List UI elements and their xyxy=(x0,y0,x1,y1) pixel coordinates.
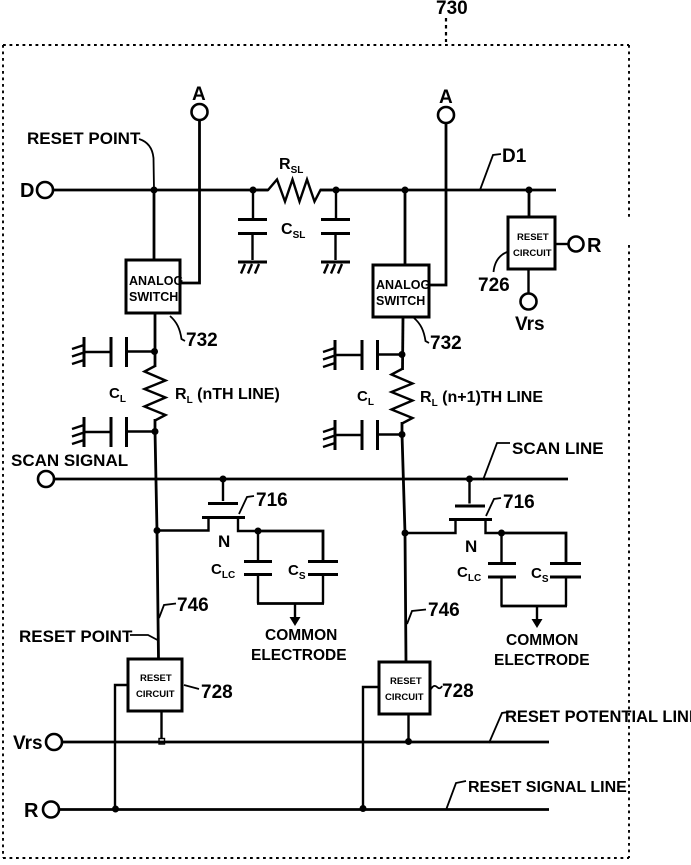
label SCAN LINE xyxy=(512,439,604,458)
label 732 (right) xyxy=(414,318,462,354)
wire: pixel node to CS (right) xyxy=(502,533,567,563)
label CL (left) xyxy=(109,385,126,405)
reset circuit U3 728 (left) xyxy=(128,659,182,711)
node: junction dots on D1 line xyxy=(151,187,533,194)
label 728 (left) xyxy=(184,682,233,703)
svg-text:SCAN SIGNAL: SCAN SIGNAL xyxy=(11,451,128,470)
capacitor CL lower-left with side ground xyxy=(72,417,159,447)
label RESET SIGNAL LINE xyxy=(446,779,627,810)
resistor RL (left, nth line) xyxy=(145,366,280,421)
label COMMON ELECTRODE (right) xyxy=(494,632,590,669)
svg-text:732: 732 xyxy=(430,333,462,354)
terminal R (at 726) xyxy=(555,235,602,257)
svg-text:SCAN LINE: SCAN LINE xyxy=(512,439,604,458)
reset circuit U4 728 (right) xyxy=(379,662,430,714)
svg-text:728: 728 xyxy=(201,682,233,703)
arrow to common electrode (right) xyxy=(532,606,543,628)
svg-text:N: N xyxy=(218,532,230,551)
transistor Q1 716 (left) xyxy=(154,476,262,535)
svg-text:RESET: RESET xyxy=(390,676,422,687)
dashed leader from 730 to block boundary xyxy=(445,18,447,42)
label CS (right) xyxy=(531,565,549,585)
wire: right column from analog switch to lower cap node xyxy=(402,317,403,435)
label 746 (left) xyxy=(159,595,209,618)
svg-text:COMMON: COMMON xyxy=(506,632,578,649)
svg-text:COMMON: COMMON xyxy=(265,627,337,644)
wire: reset potential line xyxy=(62,741,549,744)
label 716 (right) xyxy=(486,492,535,516)
svg-text:CIRCUIT: CIRCUIT xyxy=(513,248,552,259)
svg-text:RESET POINT: RESET POINT xyxy=(27,129,141,148)
wire: 728 right box to reset signal line xyxy=(360,687,380,812)
svg-text:SWITCH: SWITCH xyxy=(376,294,425,308)
svg-text:726: 726 xyxy=(478,275,510,296)
svg-text:728: 728 xyxy=(442,681,474,702)
svg-text:Vrs: Vrs xyxy=(515,314,545,335)
svg-text:ELECTRODE: ELECTRODE xyxy=(494,652,590,669)
svg-text:RESET POINT: RESET POINT xyxy=(19,627,133,646)
leader wire from RESET POINT to node xyxy=(139,139,154,190)
leader for D1 xyxy=(480,154,501,190)
svg-text:D1: D1 xyxy=(502,146,527,167)
label RESET POINT (bottom) xyxy=(19,627,158,646)
capacitor CS (right) xyxy=(550,564,581,607)
capacitor CL upper-left with side ground xyxy=(72,337,158,367)
svg-text:746: 746 xyxy=(428,600,460,621)
label 716 (left) xyxy=(239,490,288,514)
label 746 (right) xyxy=(407,600,460,624)
terminal A (right) xyxy=(438,87,454,123)
resistor RSL xyxy=(253,156,336,202)
analog switch U2 (right) xyxy=(373,265,430,317)
svg-text:ANALOG: ANALOG xyxy=(129,274,183,288)
svg-text:CIRCUIT: CIRCUIT xyxy=(385,692,424,703)
wire: A line (left) to analog switch xyxy=(181,120,200,283)
wire: pixel node to CS (left) xyxy=(258,531,323,561)
leader for SCAN LINE xyxy=(483,443,510,480)
wire: D1 down to analog switch (right) xyxy=(404,190,407,265)
svg-text:A: A xyxy=(192,84,206,105)
resistor RL (right, n+1th line) xyxy=(392,369,544,424)
label 732 (left) xyxy=(170,316,218,351)
terminal R (left) xyxy=(24,800,59,822)
svg-text:RESET: RESET xyxy=(140,673,172,684)
wire: left column lower (to reset circuit) xyxy=(155,431,159,659)
capacitor CLC (left) xyxy=(244,531,272,604)
label N (right) xyxy=(465,537,477,556)
wire: scan line xyxy=(54,478,568,481)
svg-text:N: N xyxy=(465,537,477,556)
transistor Q2 716 (right) xyxy=(402,476,506,537)
svg-text:716: 716 xyxy=(256,490,288,511)
svg-text:SWITCH: SWITCH xyxy=(129,290,178,304)
wire: right column lower (to reset circuit) xyxy=(402,434,406,662)
label CLC (left) xyxy=(211,561,235,581)
svg-text:746: 746 xyxy=(177,595,209,616)
wire: A line (right) to analog switch xyxy=(430,123,446,285)
capacitor CSL (right) xyxy=(321,190,350,260)
label RESET POTENTIAL LINE xyxy=(489,708,691,743)
svg-text:CIRCUIT: CIRCUIT xyxy=(136,689,175,700)
label CL (right) xyxy=(357,388,374,408)
label N (left) xyxy=(218,532,230,551)
label RESET POINT (top) xyxy=(27,129,141,148)
capacitor CL lower-right with side ground xyxy=(323,420,406,450)
capacitor CL upper-right with side ground xyxy=(323,340,406,370)
svg-text:Vrs: Vrs xyxy=(13,733,43,754)
wire: data line D1 xyxy=(53,189,556,192)
analog switch U1 (left) xyxy=(126,260,183,313)
terminal A (left) xyxy=(192,84,208,120)
ground (below CSL right) xyxy=(321,262,350,274)
wire: left column from analog switch to lower cap node xyxy=(154,313,157,432)
svg-text:716: 716 xyxy=(503,492,535,513)
label CSL xyxy=(281,221,305,241)
terminal Vrs (at 726) xyxy=(515,269,545,335)
ground (below CSL left) xyxy=(238,262,267,274)
capacitor CS (left) xyxy=(308,562,338,604)
wire: common electrode bus (left) xyxy=(257,602,324,605)
wire: 728 right box to reset potential line xyxy=(405,714,412,745)
wire: reset signal line xyxy=(59,808,549,811)
terminal D xyxy=(20,180,53,202)
terminal SCAN SIGNAL xyxy=(38,471,54,487)
svg-text:R: R xyxy=(24,800,39,822)
label 730 xyxy=(436,0,468,19)
svg-text:A: A xyxy=(439,87,453,108)
arrow to common electrode (left) xyxy=(290,604,301,626)
label D1 xyxy=(502,146,527,167)
label 728 (right) xyxy=(431,681,474,702)
label SCAN SIGNAL xyxy=(11,451,128,470)
svg-text:D: D xyxy=(20,180,34,202)
svg-text:730: 730 xyxy=(436,0,468,19)
reset circuit U5 726 xyxy=(508,190,555,269)
svg-text:RESET SIGNAL LINE: RESET SIGNAL LINE xyxy=(468,779,627,796)
svg-text:RESET POTENTIAL LINE: RESET POTENTIAL LINE xyxy=(505,708,691,726)
svg-text:ANALOG: ANALOG xyxy=(376,278,430,292)
label 726 xyxy=(478,252,510,296)
label CLC (right) xyxy=(457,564,481,584)
wire: 728 left box to reset potential line xyxy=(159,711,165,744)
svg-text:RESET: RESET xyxy=(517,232,549,243)
wire: common electrode bus (right) xyxy=(501,605,568,608)
label CS (left) xyxy=(288,562,306,582)
wire: reset point node down to analog switch (left) xyxy=(153,190,156,260)
capacitor CLC (right) xyxy=(488,533,516,606)
svg-text:ELECTRODE: ELECTRODE xyxy=(251,647,347,664)
terminal Vrs (left) xyxy=(13,733,62,754)
svg-text:732: 732 xyxy=(186,330,218,351)
svg-text:R: R xyxy=(587,235,602,257)
label COMMON ELECTRODE (left) xyxy=(251,627,347,664)
wire: 728 left box to reset signal line xyxy=(112,685,128,813)
capacitor CSL (left) xyxy=(238,190,267,260)
